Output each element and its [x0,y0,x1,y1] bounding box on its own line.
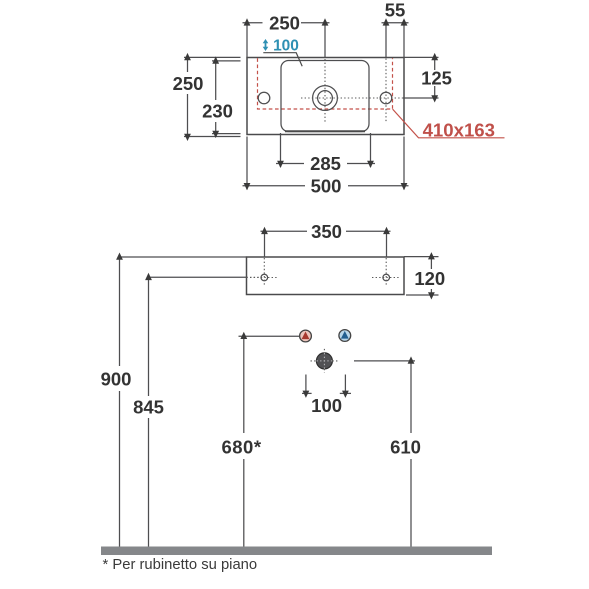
svg-text:* Per rubinetto su piano: * Per rubinetto su piano [103,557,258,573]
right mounting hole (front view) [372,258,401,286]
left mounting hole (front view) [250,258,279,286]
drain hole outer circle [313,86,338,111]
dimension 500 (overall width) [243,137,409,197]
dimension 125 (right vertical) [403,53,454,103]
hot water supply symbol (red triangle circle) [300,330,312,342]
svg-text:410x163: 410x163 [423,119,495,140]
waste drain symbol (dark circle) [311,349,339,373]
dimension 845 (height to mounting holes) [131,273,260,547]
svg-text:350: 350 [311,221,342,242]
dimension 680* (height to supplies) [216,332,299,547]
cold water supply symbol (blue triangle circle) [339,330,351,342]
vertical dotted centerline through right tap hole [385,59,387,123]
svg-text:845: 845 [133,397,164,418]
svg-text:250: 250 [269,12,300,33]
svg-text:610: 610 [390,436,421,457]
dimension 250 (left vertical) [171,53,241,141]
svg-text:100: 100 [273,38,299,55]
svg-text:100: 100 [311,395,342,416]
right tap hole circle [380,92,392,104]
svg-text:125: 125 [421,68,452,89]
svg-text:900: 900 [101,368,132,389]
horizontal dotted centerline through drain [301,97,421,99]
red label 410x163 with leader line [393,109,505,140]
dimension 610 (height to drain) [354,356,427,546]
drain hole inner circle [318,91,333,106]
svg-text:500: 500 [311,175,342,196]
floor bar [101,547,492,556]
dimension 100 (supply spacing) [302,375,351,417]
dimension 285 (below top view) [276,133,375,174]
blue label 100 (basin depth) with up-down arrow and leader [263,38,303,67]
svg-text:55: 55 [385,0,406,21]
dimension 900 (height to rim) [97,253,247,547]
dimension 350 (mounting holes) [261,221,391,257]
dimension 230 (left inner vertical) [199,56,241,138]
dimension 250 (top horizontal) [243,12,330,57]
basin bottom shadow line [285,130,365,132]
basin bowl rounded rectangle (top view) [281,61,369,132]
svg-text:250: 250 [173,73,204,94]
cut-out template red dashed rectangle 410x163 [258,58,393,109]
svg-text:285: 285 [310,153,341,174]
pedestal front view rectangle [247,257,405,295]
svg-text:120: 120 [414,268,445,289]
svg-text:230: 230 [202,101,233,122]
vertical dotted centerline through drain [324,59,326,123]
sink outer rim rectangle (top view) [247,58,404,135]
left tap hole circle [258,92,270,104]
dimension 120 (pedestal height) [404,252,449,299]
svg-text:680*: 680* [221,436,261,457]
dimension 55 (top right horizontal) [382,0,409,58]
